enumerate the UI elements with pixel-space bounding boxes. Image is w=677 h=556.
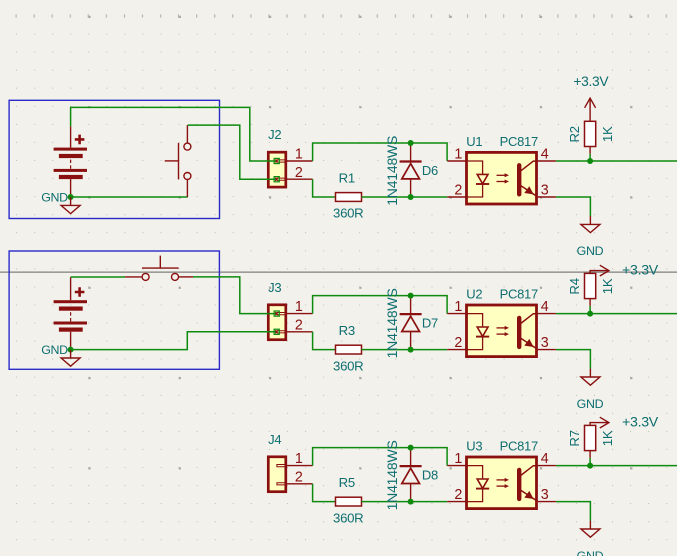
power +3.3V (590, 265, 609, 276)
diode D7 1N4148WS (400, 296, 422, 350)
svg-text:PC817: PC817 (500, 287, 538, 302)
svg-text:GND: GND (41, 190, 68, 204)
svg-text:J4: J4 (268, 432, 281, 447)
ground (U2 pin3) (581, 369, 600, 386)
svg-text:1: 1 (454, 299, 462, 315)
ground (battery 2) (61, 350, 80, 367)
svg-text:2: 2 (295, 317, 303, 333)
svg-text:GND: GND (577, 244, 604, 258)
push button SW2 (horizontal) (125, 256, 193, 281)
diode D8 1N4148WS (400, 448, 422, 502)
svg-text:U2: U2 (466, 287, 482, 302)
U2 pin 2 (447, 335, 466, 351)
node D8 anode junction (408, 445, 414, 451)
svg-text:2: 2 (454, 335, 462, 351)
svg-text:R5: R5 (339, 475, 355, 490)
U1 pin 1 (447, 146, 466, 162)
connector J4 (268, 457, 286, 492)
svg-text:R3: R3 (339, 323, 355, 338)
svg-text:+3.3V: +3.3V (622, 262, 659, 278)
svg-text:GND: GND (577, 397, 604, 411)
wire J2 pin2 to R1 (313, 179, 336, 197)
svg-text:4: 4 (541, 146, 549, 162)
wire J3 pin1 to diode top (313, 296, 448, 314)
svg-text:360R: 360R (333, 358, 363, 373)
resistor R1 360R (333, 170, 363, 220)
svg-text:J3: J3 (268, 280, 281, 295)
svg-text:U1: U1 (466, 134, 482, 149)
power +3.3V (585, 98, 596, 121)
svg-text:1K: 1K (600, 430, 615, 446)
svg-text:360R: 360R (333, 510, 363, 525)
power +3.3V (590, 417, 609, 428)
J2 pin 2 (287, 165, 313, 181)
svg-text:1K: 1K (600, 278, 615, 294)
wire U1 pin3 to ground (556, 197, 591, 216)
J3 pin 2 (287, 317, 313, 333)
svg-text:1: 1 (454, 451, 462, 467)
svg-text:1N4148WS: 1N4148WS (384, 136, 400, 206)
wire battery2 - to J3 pin2 (71, 332, 277, 350)
ground (U1 pin3) (581, 216, 600, 233)
svg-text:R4: R4 (567, 278, 582, 294)
ground (U3 pin3) (581, 521, 600, 538)
wire end markers on J2 pins (274, 158, 279, 181)
U1 pin 2 (447, 182, 466, 198)
wire U3 pin3 to ground (556, 502, 591, 521)
wire R3 to U2 pin2 (362, 349, 448, 351)
op­tocoupler U1 PC817 (467, 152, 538, 204)
wire J3 pin2 to R3 (313, 332, 336, 350)
svg-text:2: 2 (295, 469, 303, 485)
node D6 anode junction (408, 140, 414, 146)
ground (battery 1) (61, 197, 80, 214)
wire U1 pin4 out (556, 160, 677, 162)
resistor R7 1K (567, 425, 615, 465)
svg-text:4: 4 (541, 299, 549, 315)
U3 pin 4 (538, 451, 556, 467)
svg-text:GND: GND (41, 343, 68, 357)
svg-text:R7: R7 (567, 430, 582, 446)
connector J2 (268, 152, 286, 187)
wire R5 to U3 pin2 (362, 501, 448, 503)
U1 pin 4 (538, 146, 556, 162)
wire J2 pin1 to diode top (313, 143, 448, 161)
node R7 junction (587, 463, 593, 469)
wire U3 pin4 out (556, 465, 677, 467)
node R4 junction (587, 311, 593, 317)
svg-text:360R: 360R (333, 206, 363, 221)
svg-text:3: 3 (541, 182, 549, 198)
wire battery1 + to J2 pin1 (71, 107, 277, 161)
svg-text:1N4148WS: 1N4148WS (384, 440, 400, 510)
svg-text:R2: R2 (567, 126, 582, 142)
node R2 junction (587, 158, 593, 164)
wire switch SW2 to J3 pin1 (193, 277, 277, 314)
svg-text:GND: GND (577, 549, 604, 556)
svg-text:D7: D7 (422, 316, 438, 331)
wire J4 pin1 to diode top (313, 448, 448, 466)
wire battery1 - to switch (71, 196, 188, 198)
node D8 cathode junction (408, 499, 414, 505)
svg-text:PC817: PC817 (500, 134, 538, 149)
svg-text:1: 1 (295, 147, 303, 163)
svg-text:2: 2 (454, 487, 462, 503)
resistor R3 360R (333, 323, 363, 373)
resistor R4 1K (567, 273, 615, 313)
svg-text:J2: J2 (268, 127, 281, 142)
U3 pin 3 (538, 487, 556, 503)
note box (battery + switch enclosure 1) (9, 100, 219, 218)
U2 pin 1 (447, 299, 466, 315)
U1 pin 3 (538, 182, 556, 198)
node D6 cathode junction (408, 194, 414, 200)
node D7 anode junction (408, 293, 414, 299)
svg-text:+3.3V: +3.3V (622, 414, 659, 430)
svg-text:1K: 1K (600, 126, 615, 142)
U2 pin 4 (538, 299, 556, 315)
svg-text:D8: D8 (422, 468, 438, 483)
U3 pin 2 (447, 487, 466, 503)
svg-text:PC817: PC817 (500, 439, 538, 454)
op­tocoupler U2 PC817 (467, 305, 538, 357)
svg-text:1: 1 (295, 451, 303, 467)
svg-text:3: 3 (541, 487, 549, 503)
J2 pin 1 (287, 147, 313, 163)
J4 pin 2 (287, 469, 313, 485)
svg-text:1N4148WS: 1N4148WS (384, 288, 400, 358)
horizontal divider line (0, 271, 677, 273)
svg-text:U3: U3 (466, 439, 482, 454)
svg-text:1: 1 (454, 146, 462, 162)
node GND1 junction (68, 194, 74, 200)
note box (battery + switch enclosure 2) (9, 251, 219, 369)
push button SW1 (165, 125, 191, 197)
U3 pin 1 (447, 451, 466, 467)
wire battery2 + to switch (71, 276, 125, 278)
J4 pin 1 (287, 451, 313, 467)
op­tocoupler U3 PC817 (467, 457, 538, 509)
wire R1 to U1 pin2 (362, 196, 448, 198)
battery BT1 (54, 126, 87, 197)
wire U2 pin4 out (556, 313, 677, 315)
svg-text:D6: D6 (422, 163, 438, 178)
node D7 cathode junction (408, 347, 414, 353)
wire switch SW1 to J2 pin2 (188, 125, 277, 179)
svg-text:R1: R1 (339, 170, 355, 185)
wire J4 pin2 to R5 (313, 484, 336, 502)
node GND2 junction (68, 347, 74, 353)
svg-text:2: 2 (454, 182, 462, 198)
resistor R5 360R (333, 475, 363, 525)
svg-text:4: 4 (541, 451, 549, 467)
svg-text:3: 3 (541, 335, 549, 351)
battery BT2 (54, 277, 87, 349)
wire U2 pin3 to ground (556, 350, 591, 369)
wire end markers on J3 pins (274, 311, 279, 334)
svg-text:2: 2 (295, 165, 303, 181)
U2 pin 3 (538, 335, 556, 351)
diode D6 1N4148WS (400, 143, 422, 197)
connector J3 (268, 305, 286, 340)
J3 pin 1 (287, 299, 313, 315)
resistor R2 1K (567, 121, 615, 161)
svg-text:+3.3V: +3.3V (573, 74, 609, 89)
svg-text:1: 1 (295, 299, 303, 315)
